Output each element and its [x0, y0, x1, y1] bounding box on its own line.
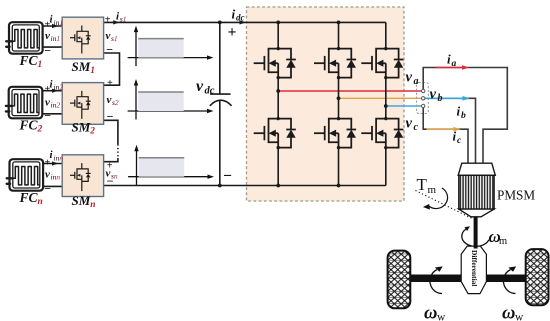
MOSFET S5 (leg C high side): [361, 47, 403, 79]
motor shaft: [474, 217, 478, 247]
module SM2: [62, 83, 103, 125]
gate pulse plot 1: [128, 26, 214, 67]
svg-text:−: −: [107, 174, 114, 188]
svg-text:−: −: [223, 168, 232, 185]
svg-text:v: v: [430, 87, 437, 103]
svg-text:+: +: [45, 19, 51, 30]
svg-text:s2: s2: [112, 98, 119, 107]
MOSFET S4 (leg A low side): [254, 117, 296, 149]
torque axis dotted line: [416, 191, 473, 219]
wire: phase c to motor: [423, 108, 468, 164]
svg-text:−: −: [106, 43, 113, 57]
rotation arc omega_m: [462, 229, 489, 246]
svg-text:+: +: [45, 84, 51, 95]
svg-text:b: b: [438, 93, 443, 104]
inverter leg A: phase wire (red): [278, 90, 421, 92]
arrow i_inn: [52, 161, 59, 165]
terminal node b: [422, 97, 425, 100]
svg-text:i: i: [457, 103, 461, 118]
wire: FC2 to SM2 bottom: [42, 113, 62, 115]
svg-text:w: w: [437, 312, 446, 321]
wire: phase a to motor: [423, 68, 507, 164]
wire: FCn to SMn top: [43, 163, 62, 165]
arrow i_dc: [240, 20, 247, 24]
svg-text:i: i: [232, 6, 236, 21]
wire: phase b to motor: [425, 98, 476, 163]
svg-text:v: v: [45, 168, 50, 180]
PMSM motor body (striped): [459, 175, 494, 209]
inverter leg B: phase wire (orange): [339, 97, 422, 99]
svg-text:dc: dc: [236, 12, 245, 22]
svg-text:v: v: [196, 78, 204, 95]
inverter leg B wires: [338, 22, 340, 185]
node: leg A bottom: [276, 184, 280, 188]
svg-text:+: +: [228, 24, 237, 41]
gate pulse plot 2: [128, 79, 214, 120]
node: leg A top: [276, 21, 280, 25]
svg-text:b: b: [461, 111, 466, 121]
right wheel: [526, 249, 549, 305]
svg-text:−: −: [44, 109, 51, 123]
current arrow i_b (cyan): [425, 97, 463, 99]
torque arrow arc (T_m): [429, 188, 448, 209]
svg-text:s1: s1: [120, 14, 127, 23]
rotation arc omega_w right: [503, 270, 515, 294]
wire: FC1 to SM1 bottom: [43, 46, 63, 48]
capacitor C_dc top plate: [210, 93, 231, 95]
current arrow i_a (red): [436, 67, 463, 69]
svg-text:w: w: [515, 312, 524, 321]
shaft stub into differential: [474, 246, 478, 249]
left wheel: [388, 251, 411, 309]
svg-text:v: v: [406, 116, 413, 132]
terminal block dashed box: [417, 83, 429, 114]
MOSFET S2 (leg C low side): [361, 117, 403, 149]
svg-text:+: +: [107, 78, 113, 89]
axle bar: [409, 275, 527, 283]
terminal node a: [422, 89, 425, 92]
fuel cell FC1: [6, 22, 42, 54]
inverter leg C wires: [385, 22, 387, 185]
wire: SM2 minus down (solid): [104, 120, 118, 144]
svg-text:a: a: [414, 76, 419, 87]
svg-text:T: T: [417, 175, 428, 194]
node: leg A phase: [276, 89, 280, 93]
module SMn: [62, 155, 103, 197]
svg-text:a: a: [452, 59, 457, 69]
gate pulse plot 3: [128, 145, 214, 186]
arrow i_in2: [52, 89, 59, 93]
svg-text:inn: inn: [51, 172, 61, 181]
differential housing: [461, 246, 486, 294]
wire: FC2 to SM2 top: [42, 90, 62, 92]
svg-text:v: v: [45, 30, 50, 42]
arrow i_s1: [113, 20, 120, 24]
svg-text:m: m: [499, 236, 507, 247]
wire: FCn to SMn bottom: [43, 185, 62, 187]
node: DC bus bottom junction: [218, 184, 222, 188]
rotation arc omega_w left: [430, 270, 442, 294]
wire: SM1 minus to SM2 plus: [104, 53, 120, 85]
svg-text:i: i: [453, 128, 457, 143]
svg-text:dc: dc: [205, 85, 215, 96]
svg-text:−: −: [44, 44, 51, 58]
terminal node c: [422, 104, 425, 107]
PMSM motor end cone: [459, 209, 494, 217]
wire: FC1 to SM1 top: [43, 25, 63, 27]
svg-text:+: +: [105, 15, 111, 26]
svg-text:+: +: [45, 157, 51, 168]
svg-text:−: −: [107, 109, 114, 123]
svg-text:in1: in1: [51, 34, 61, 43]
module SM1: [62, 17, 103, 59]
PMSM motor collar: [458, 163, 495, 175]
svg-text:i: i: [447, 51, 451, 66]
svg-text:c: c: [414, 122, 419, 133]
svg-text:PMSM: PMSM: [497, 188, 535, 203]
fuel cell FCn: [7, 159, 43, 191]
wire: into SMn plus: [104, 158, 118, 162]
node: leg B phase: [337, 96, 341, 100]
current arrow i_c (orange): [427, 128, 455, 130]
svg-text:v: v: [106, 30, 111, 42]
wire: DC-link vertical lower: [219, 101, 221, 186]
MOSFET S6 (leg B low side): [314, 117, 356, 149]
svg-text:v: v: [406, 70, 413, 86]
svg-text:in2: in2: [54, 83, 64, 92]
svg-text:Differential: Differential: [470, 250, 479, 286]
node: leg C phase: [384, 104, 388, 108]
inverter leg A wires: [277, 22, 279, 185]
node: leg B top: [337, 21, 341, 25]
node: DC bus top junction: [218, 21, 222, 25]
wire: negative DC bus: [104, 185, 386, 187]
inverter enclosure (dashed box): [247, 7, 405, 201]
svg-text:m: m: [428, 184, 437, 196]
wire: series continuation (dotted): [117, 144, 119, 158]
svg-text:ω: ω: [502, 304, 515, 321]
svg-text:v: v: [45, 96, 50, 108]
MOSFET S1 (leg A high side): [254, 47, 296, 79]
capacitor C_dc bottom plate (curved): [210, 100, 232, 106]
arrow i_in1: [52, 24, 59, 28]
svg-text:inn: inn: [54, 154, 64, 163]
svg-text:+: +: [107, 161, 113, 172]
node: leg B bottom: [337, 184, 341, 188]
fuel cell FC2: [6, 87, 42, 119]
wire: positive DC bus: [104, 21, 386, 23]
MOSFET S3 (leg B high side): [314, 47, 356, 79]
svg-text:ω: ω: [424, 304, 437, 321]
wire: DC-link vertical upper: [219, 22, 221, 94]
inverter leg C: phase wire (blue): [386, 105, 422, 107]
svg-text:in2: in2: [51, 100, 61, 109]
svg-text:in1: in1: [54, 18, 64, 27]
svg-text:−: −: [44, 181, 51, 195]
svg-text:v: v: [107, 94, 112, 106]
